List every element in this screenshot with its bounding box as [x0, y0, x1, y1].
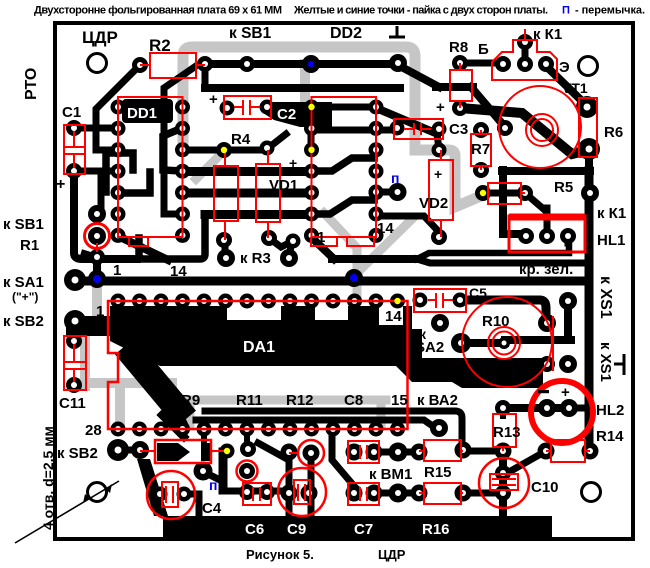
wire VT1 top stub [522, 42, 529, 64]
pad at 587,107 [576, 96, 598, 118]
trimmer R10 wiper ring [488, 327, 520, 359]
pad at 460,108 [452, 100, 468, 116]
resistor R5 [488, 183, 521, 204]
pad at 398,63 [389, 54, 407, 72]
wire C1 top to pin2 [74, 125, 118, 132]
pad at 226,429 [218, 422, 233, 437]
pad at 354,493 [346, 485, 363, 502]
wire R8 to VT1 [460, 60, 503, 67]
svg-text:П: П [562, 5, 570, 17]
wire DD1 inner U2 [118, 172, 150, 193]
svg-text:к ВМ1: к ВМ1 [369, 466, 412, 483]
pad at 267,492 [259, 484, 275, 500]
svg-text:SA2: SA2 [415, 339, 444, 356]
svg-text:+: + [436, 99, 445, 116]
pad at 182,193 [175, 185, 190, 200]
pad at 374,452 [366, 444, 383, 461]
pad at 293,241 [286, 234, 301, 249]
wire gray cross B [357, 219, 412, 273]
svg-text:Желтые и синие точки - пайка с: Желтые и синие точки - пайка с двух стор… [293, 5, 548, 17]
pad at 419,493 [411, 485, 428, 502]
pad at 140,301 [132, 294, 147, 309]
pad at 483,193 [475, 185, 491, 201]
pad at 547,323 [538, 314, 556, 332]
pad at 161,301 [154, 294, 169, 309]
node bottom ground bar body [163, 516, 552, 538]
wire R8 to R6 wiper [460, 108, 588, 154]
resistor R8 [450, 70, 472, 101]
mounting hole at 591,492 [582, 483, 601, 502]
wire BM1 link bot [375, 490, 419, 497]
pad at 463,450 [455, 442, 472, 459]
svg-text:R14: R14 [596, 428, 624, 445]
pad at 267,148 [260, 141, 275, 156]
svg-text:R4: R4 [231, 131, 251, 148]
wire DD1 right inner [163, 128, 182, 171]
node bottom ground bar [137, 459, 168, 516]
pad at 182,235 [175, 228, 190, 243]
pad at 376,192 [369, 185, 384, 200]
pad at 227,451 [220, 444, 235, 459]
svg-text:+: + [209, 91, 218, 108]
wire channel barA [183, 167, 311, 176]
pad at 354,278 [345, 269, 363, 287]
pad at 547,364 [539, 356, 555, 372]
wire gray SA1 stub [92, 285, 102, 316]
wire HL2 row [502, 404, 569, 412]
node SB2 plate left [66, 316, 114, 336]
wire pad257 to SA1 [93, 258, 101, 279]
svg-text:C3: C3 [449, 121, 468, 138]
pad at 74,171 [66, 163, 82, 179]
wire DD1 bottom diag [120, 237, 168, 260]
pad at 204,301 [197, 294, 212, 309]
wire R6 row [502, 167, 590, 175]
wire rail to pad257 [84, 253, 97, 257]
IC DD2 outline [312, 97, 377, 237]
wire hex to bar [204, 472, 222, 481]
wire R10 to SA2 [461, 339, 505, 347]
svg-text:к XS1: к XS1 [597, 276, 614, 319]
wire DA1 diag down [162, 415, 184, 437]
pad at 247,64 [239, 56, 255, 72]
wire gray C11 left [80, 332, 90, 386]
pad at 481,130 [473, 122, 489, 138]
pad at 547,236 [539, 228, 555, 244]
node SA2 copper pour [390, 329, 543, 388]
wire diag bl [258, 443, 287, 459]
wire y150 link2 [224, 147, 267, 154]
pad at 74,128 [66, 120, 82, 136]
svg-text:к SB1: к SB1 [229, 25, 272, 42]
svg-text:- перемычка.: - перемычка. [575, 5, 645, 17]
wire DA1 pin stub1 [201, 429, 207, 444]
pad at 525,64 [517, 56, 533, 72]
pad at 376,171 [369, 164, 384, 179]
wire gray C11 bottom [82, 378, 172, 388]
wire C9 vert1 [286, 453, 293, 516]
ground symbol top [389, 26, 405, 37]
wire busK [417, 259, 587, 263]
pad at 525,193 [517, 185, 533, 201]
IC DA1 outline [108, 301, 408, 429]
svg-text:VT1: VT1 [562, 80, 588, 96]
svg-text:VD2: VD2 [419, 195, 448, 212]
ground symbol right [614, 354, 624, 375]
pad at 568,364 [559, 355, 577, 373]
svg-text:к SA1: к SA1 [3, 274, 44, 291]
pad at 354,452 [346, 444, 363, 461]
pad at 97,257 [89, 249, 105, 265]
pad at 118,429 [111, 422, 126, 437]
wire bus1a [139, 215, 205, 259]
pad at 205,64 [197, 56, 213, 72]
node DA1 pour notch2 [315, 306, 348, 320]
wire pour to pad376 [330, 104, 376, 111]
wire bus to R6 wiper pad [471, 87, 505, 127]
pad at 118,107 [111, 100, 126, 115]
pad at 398,429 [390, 422, 405, 437]
wire R3 stub2 [269, 238, 293, 247]
pad at 354,301 [347, 294, 362, 309]
wire HL1 right stub [565, 236, 572, 243]
pad at 227,108 [220, 101, 235, 116]
pad at 397,128 [390, 121, 405, 136]
svg-text:R10: R10 [482, 313, 510, 330]
pad at 526,236 [518, 228, 534, 244]
pad at 590,451 [582, 443, 599, 460]
wire gray SB1 top run [183, 47, 481, 207]
wire DD1 inner U1 [106, 153, 133, 192]
pad at 182,150 [175, 142, 190, 157]
pad at 398,301 [390, 294, 405, 309]
pad at 419,452 [411, 444, 428, 461]
wire R5 link [483, 190, 525, 197]
wire row double1 [205, 411, 462, 450]
pad at 75,321 [64, 310, 86, 332]
pad at 97,236 [88, 227, 106, 245]
mounting hole at 97,492 [88, 483, 107, 502]
pad at 74,385 [66, 377, 82, 393]
wire gray band drop2 [186, 400, 195, 426]
wire R6 pad down [585, 152, 593, 171]
svg-text:кр. зел.: кр. зел. [519, 261, 573, 278]
node DA1 diag to pin [170, 400, 184, 429]
capacitor C11 [64, 336, 86, 390]
node DA1 pour notch3 [379, 306, 403, 325]
wire HL1 mid up [544, 208, 551, 236]
svg-text:C4: C4 [202, 500, 222, 517]
switch SB2 box [155, 440, 211, 463]
svg-text:R9: R9 [181, 392, 200, 409]
wire bus1b [332, 255, 419, 263]
svg-text:1: 1 [317, 229, 325, 246]
pad at 289,258 [280, 249, 298, 267]
pad at 161,429 [154, 422, 169, 437]
via ring bottom [298, 440, 324, 466]
svg-text:C5: C5 [469, 285, 487, 301]
svg-text:п: п [209, 477, 217, 493]
pad at 376,235 [369, 228, 384, 243]
svg-text:C8: C8 [344, 392, 363, 409]
pad at 118,450 [107, 439, 129, 461]
pad at 439,150 [432, 143, 447, 158]
svg-text:Б: Б [478, 41, 489, 58]
svg-text:R11: R11 [236, 392, 263, 409]
pad at 460,300 [453, 293, 468, 308]
pad at 312,107 [304, 100, 319, 115]
svg-text:R2: R2 [149, 36, 171, 55]
wire HL1 link1 [503, 230, 518, 238]
pad at 182,214 [175, 207, 190, 222]
capacitor C7b [348, 483, 379, 505]
wire bus2 stub up [202, 64, 209, 88]
pad at 503,64 [495, 56, 511, 72]
capacitor C3 [394, 119, 443, 139]
wire gray under C2 [300, 64, 310, 103]
wire channel barB [183, 189, 311, 198]
pad at 439,428 [430, 419, 448, 437]
pad at 247,301 [240, 294, 255, 309]
svg-text:DD2: DD2 [330, 25, 362, 42]
capacitor C4 circle [147, 471, 195, 519]
wire R3 stub3 [289, 241, 292, 257]
wire R10 hex drop [564, 301, 572, 336]
wire R2 to C1 [96, 65, 140, 150]
svg-text:к К1: к К1 [597, 205, 626, 222]
wire p jumper link [376, 189, 397, 196]
pad at 75,280 [64, 269, 86, 291]
svg-text:HL1: HL1 [597, 232, 625, 249]
svg-text:14: 14 [385, 308, 402, 325]
svg-text:к R3: к R3 [240, 250, 271, 267]
svg-text:14: 14 [377, 220, 394, 237]
capacitor C2 [224, 96, 271, 119]
pad at 374,493 [366, 485, 383, 502]
wire bus3 main [86, 277, 587, 286]
pad at 546,64 [538, 56, 554, 72]
pad at 420,300 [413, 293, 428, 308]
hole pointer line [15, 481, 119, 543]
resistor R15 [424, 440, 461, 461]
jog DD2 pin1 [311, 237, 374, 246]
svg-text:C7: C7 [354, 521, 373, 538]
pad at 461,343 [451, 333, 471, 353]
pad at 525,42 [517, 34, 533, 50]
pad at 460,63 [452, 55, 468, 71]
diode VD2 [429, 160, 453, 220]
pad at 503,493 [495, 485, 511, 501]
wire top bus step [396, 64, 439, 87]
jog DD1 pin1 [118, 237, 148, 246]
pad at 463,493 [455, 485, 472, 502]
pad at 184,494 [177, 487, 192, 502]
wire gray DA1 mid vert [167, 383, 177, 426]
wire R10 row2 [505, 336, 571, 344]
svg-text:R6: R6 [604, 124, 623, 141]
svg-text:к ВА2: к ВА2 [417, 392, 458, 409]
svg-text:15: 15 [391, 392, 408, 409]
pad at 118,301 [111, 294, 126, 309]
pad at 503,473 [495, 465, 511, 481]
wire SB2 black bar [219, 452, 228, 490]
pad at 546,451 [538, 443, 555, 460]
node DA1 pour left diag [125, 346, 186, 419]
pad at 140,450 [131, 441, 149, 459]
svg-text:+: + [289, 155, 297, 171]
capacitor C6 [243, 483, 271, 505]
wire VD1top diag [267, 134, 286, 149]
pad at 182,128 [175, 121, 190, 136]
pad at 376,301 [369, 294, 384, 309]
resistor R14 [551, 440, 585, 462]
wire VT1 to R6 top pad [546, 66, 585, 104]
svg-text:R8: R8 [449, 39, 468, 56]
svg-text:РТО: РТО [23, 68, 40, 100]
label minus HL2 [538, 390, 549, 393]
pad at 226,301 [218, 294, 233, 309]
wire DD2 inner2 [313, 200, 374, 214]
transistor VT1 outline [492, 40, 557, 80]
svg-text:R16: R16 [422, 521, 450, 538]
resistor R16 [424, 483, 461, 504]
wire gray DA1 left vert [115, 385, 125, 427]
pad at 376,128 [369, 121, 384, 136]
pad at 118,171 [111, 164, 126, 179]
pad at 97,214 [88, 205, 106, 223]
svg-text:Двухсторонне фольгированная пл: Двухсторонне фольгированная плата 69 х 6… [34, 5, 282, 17]
pad at 439,129 [432, 122, 447, 137]
pad at 182,171 [175, 164, 190, 179]
wire SB2 pair [118, 447, 140, 454]
pad at 376,150 [369, 142, 384, 157]
svg-text:HL2: HL2 [596, 402, 624, 419]
trimmer R6 tab [579, 98, 597, 157]
resistor R13 [493, 414, 516, 447]
svg-text:C1: C1 [62, 104, 81, 121]
svg-text:DA1: DA1 [243, 339, 275, 356]
svg-text:C11: C11 [59, 395, 86, 412]
wire R10 top feed [461, 300, 546, 322]
wire gray R4 diagonal [196, 151, 224, 179]
capacitor C5 [414, 289, 466, 312]
svg-text:C2: C2 [277, 106, 296, 123]
wire gray R9 band [190, 396, 386, 405]
wire gray cross A [324, 213, 357, 300]
wire y150 link1 [183, 147, 224, 154]
pad at 290,429 [283, 422, 298, 437]
pad at 289,493 [281, 485, 298, 502]
svg-text:к SB2: к SB2 [3, 313, 44, 330]
wire pour to C3 left [320, 127, 395, 134]
pad at 118,235 [111, 228, 126, 243]
pad at 312,171 [304, 164, 319, 179]
svg-text:1: 1 [113, 262, 121, 279]
capacitor C1 [64, 125, 85, 174]
wire bus1b diag [311, 237, 334, 259]
wire DD2 col drop [308, 108, 315, 150]
pad at 203,471 [194, 462, 213, 481]
svg-text:Рисунок 5.: Рисунок 5. [246, 547, 314, 562]
trimmer R10 circle [462, 297, 552, 387]
wire channel barC [205, 210, 311, 219]
pad at 289,452 [281, 444, 298, 461]
pad at 333,429 [326, 422, 341, 437]
wire R10 bot link [505, 360, 546, 368]
wire C10 vert [499, 451, 507, 516]
wire R2 diag [164, 66, 196, 214]
pad at 312,214 [304, 207, 319, 222]
pad at 376,107 [369, 100, 384, 115]
pad at 226,258 [217, 249, 235, 267]
solder dots both sides [308, 61, 314, 67]
svg-text:Э: Э [559, 59, 570, 76]
pad at 248,449 [240, 441, 256, 457]
pad at 398,192 [389, 183, 407, 201]
pad at 267,107 [260, 100, 275, 115]
pad at 311,453 [303, 445, 320, 462]
pad at 589,149 [578, 138, 600, 160]
wire R5 to HL1 [525, 193, 547, 236]
wire R14 diag [509, 451, 546, 472]
wire bus2 [205, 84, 400, 92]
mounting hole at 588,66 [579, 57, 598, 76]
svg-text:ЦДР: ЦДР [82, 28, 118, 47]
svg-text:R15: R15 [424, 464, 452, 481]
node DA1 pour notch1 [227, 306, 281, 320]
svg-text:R7: R7 [471, 141, 490, 158]
wire right bus [585, 171, 594, 451]
pad at 398,493 [389, 484, 408, 503]
diode VD1 [256, 164, 280, 222]
wire DA1 pin stub2 [244, 429, 250, 440]
svg-text:+: + [561, 384, 570, 401]
svg-text:DD1: DD1 [127, 105, 157, 122]
svg-text:VD1: VD1 [269, 177, 298, 194]
wire HL2 to bus [569, 405, 587, 412]
svg-text:п: п [391, 170, 399, 186]
svg-text:R13: R13 [493, 424, 521, 441]
wire C3 to VD2 [437, 133, 439, 150]
IC DD1 outline [118, 97, 183, 237]
pad at 568,236 [560, 228, 576, 244]
wire C9 vert2 [308, 454, 315, 516]
wire pin col drop [98, 171, 105, 212]
wire C7 bot link [463, 490, 496, 497]
pad at 182,429 [175, 422, 190, 437]
pad at 376,214 [369, 207, 384, 222]
pad at 376,193 [369, 185, 384, 200]
pad at 312,235 [304, 228, 319, 243]
pad at 333,301 [326, 294, 341, 309]
pad at 268,429 [261, 422, 276, 437]
wire R15 to R13 [463, 448, 503, 455]
wire C1 bot to pin [74, 168, 118, 175]
pad at 503,408 [495, 400, 511, 416]
svg-text:к SB1: к SB1 [3, 216, 44, 233]
resistor R4 [214, 166, 238, 221]
pad at 481,170 [473, 162, 489, 178]
pad at 505,128 [497, 120, 513, 136]
pad at 439,237 [431, 229, 447, 245]
via ring C4 area [237, 461, 258, 482]
svg-text:28: 28 [85, 422, 102, 439]
capacitor C7a [348, 441, 379, 463]
pad at 118,193 [111, 185, 126, 200]
wire DD2 inner1 [313, 158, 374, 171]
svg-text:к XS1: к XS1 [597, 342, 614, 382]
pad at 74,341 [66, 333, 82, 349]
